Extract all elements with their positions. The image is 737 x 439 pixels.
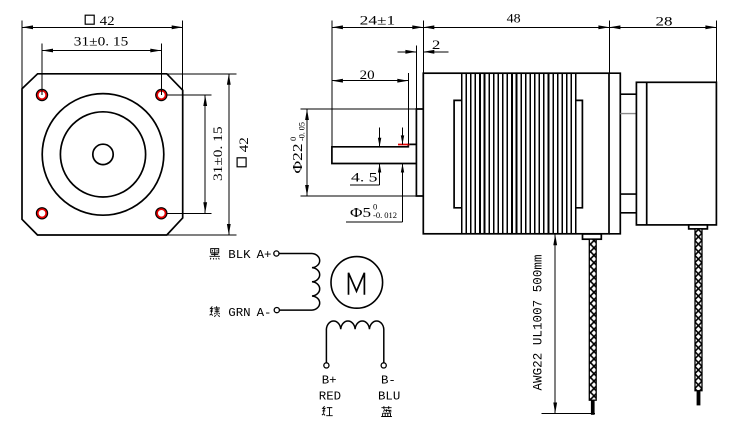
mounting hole top-right [156,90,166,100]
phase A coil (vertical) [312,254,320,311]
svg-text:RED: RED [319,389,341,403]
front face circle (middle) [60,112,145,197]
dim extension lines, 31 vertical (holes to right) [167,95,212,213]
wire length dim 500mm vertical line [541,234,595,413]
svg-text:31±0. 15: 31±0. 15 [74,34,129,49]
shaft outline with flat [332,144,417,163]
dim text AWG22 UL1007 500mm rotated [532,255,546,391]
combined top dimension line 24/48/28 [332,26,717,28]
left braided cable [589,239,596,400]
dim line square-42 vertical [228,74,230,235]
svg-text:4. 5: 4. 5 [351,170,378,185]
front pilot boss [416,109,423,196]
Chinese char HEI (black) [210,249,220,260]
dim 20 (shaft flat length) [332,73,408,144]
dim line 31 horizontal [42,50,161,52]
boss top/bottom extension lines to phi22 dim [301,109,417,196]
left stator side plate [454,100,462,207]
top dim extension lines: shaft tip, front face, body rear, block rear [332,21,717,147]
mounting hole bottom-left [37,208,47,218]
dim text square 42 top [85,15,94,24]
bottom connecting tab [620,193,636,195]
rear cover plate [609,73,620,234]
rear block (28mm section) [636,82,716,225]
wire A- to coil [279,309,312,311]
wire A+ to coil [279,253,312,255]
svg-text:AWG22 UL1007 500mm: AWG22 UL1007 500mm [532,255,546,391]
phase B coil (horizontal) [326,321,383,363]
dim text phi22 0/-0.05 rotated [288,122,307,174]
dim line 31 vertical [204,95,206,213]
svg-text:31±0. 15: 31±0. 15 [210,127,225,182]
right braided cable [695,229,702,391]
front pilot circle (outer) [42,94,164,216]
svg-text:Φ5: Φ5 [350,205,371,220]
svg-text:48: 48 [507,10,521,25]
svg-text:BLK: BLK [228,248,251,262]
svg-text:24±1: 24±1 [360,12,396,27]
svg-text:BLU: BLU [378,389,400,403]
svg-text:-0. 05: -0. 05 [296,122,306,141]
svg-text:-0. 012: -0. 012 [373,210,397,220]
terminal A- [274,308,279,313]
svg-text:GRN: GRN [228,306,250,320]
svg-text:B+: B+ [322,373,337,387]
dim extension lines, square 42 horizontal [22,21,183,91]
terminal A+ [274,251,279,256]
dim extension lines, square 42 vertical [167,74,237,235]
Chinese char LAN (blue) [381,406,392,416]
svg-text:Φ22: Φ22 [290,144,305,174]
top connecting tab between cap and block [620,93,636,95]
terminal B+ [324,363,329,368]
left cable stripped tip [591,400,595,415]
svg-text:A-: A- [257,306,272,320]
right cable stripped tip [697,391,701,406]
right cable gland [689,225,708,229]
Chinese char LU (green) [210,306,220,317]
dim 2 (boss protrusion) [398,46,449,110]
svg-text:28: 28 [656,13,673,28]
dim extension lines, 31 horizontal (to holes) [42,44,161,95]
svg-text:A+: A+ [257,248,272,262]
svg-text:42: 42 [236,137,251,152]
dim text square 42 vertical [236,137,251,167]
terminal B- [381,363,386,368]
dim line square-42 top [22,26,183,28]
left cable gland [583,234,602,239]
svg-text:20: 20 [360,67,375,82]
dim phi22 vertical line [306,109,308,196]
rear block inner edge line [646,82,648,225]
svg-text:2: 2 [432,37,441,52]
lamination fins [462,73,576,234]
mounting hole top-left [37,90,47,100]
dim text 31+-0.15 vertical [210,127,225,182]
svg-text:B-: B- [381,373,396,387]
right stator side plate [576,100,583,207]
red flat marker on shaft [398,144,410,146]
motor front-view body outline [22,74,183,235]
mounting hole bottom-right [156,208,166,218]
side view: motor body rectangle [423,73,609,234]
shaft circle (center) [93,144,113,164]
Chinese char HONG (red) [322,406,333,416]
svg-text:42: 42 [100,13,115,28]
dim 4.5 (flat) arrows [350,127,380,185]
dim phi5 arrows and label [346,127,402,222]
motor circle M [331,257,383,309]
